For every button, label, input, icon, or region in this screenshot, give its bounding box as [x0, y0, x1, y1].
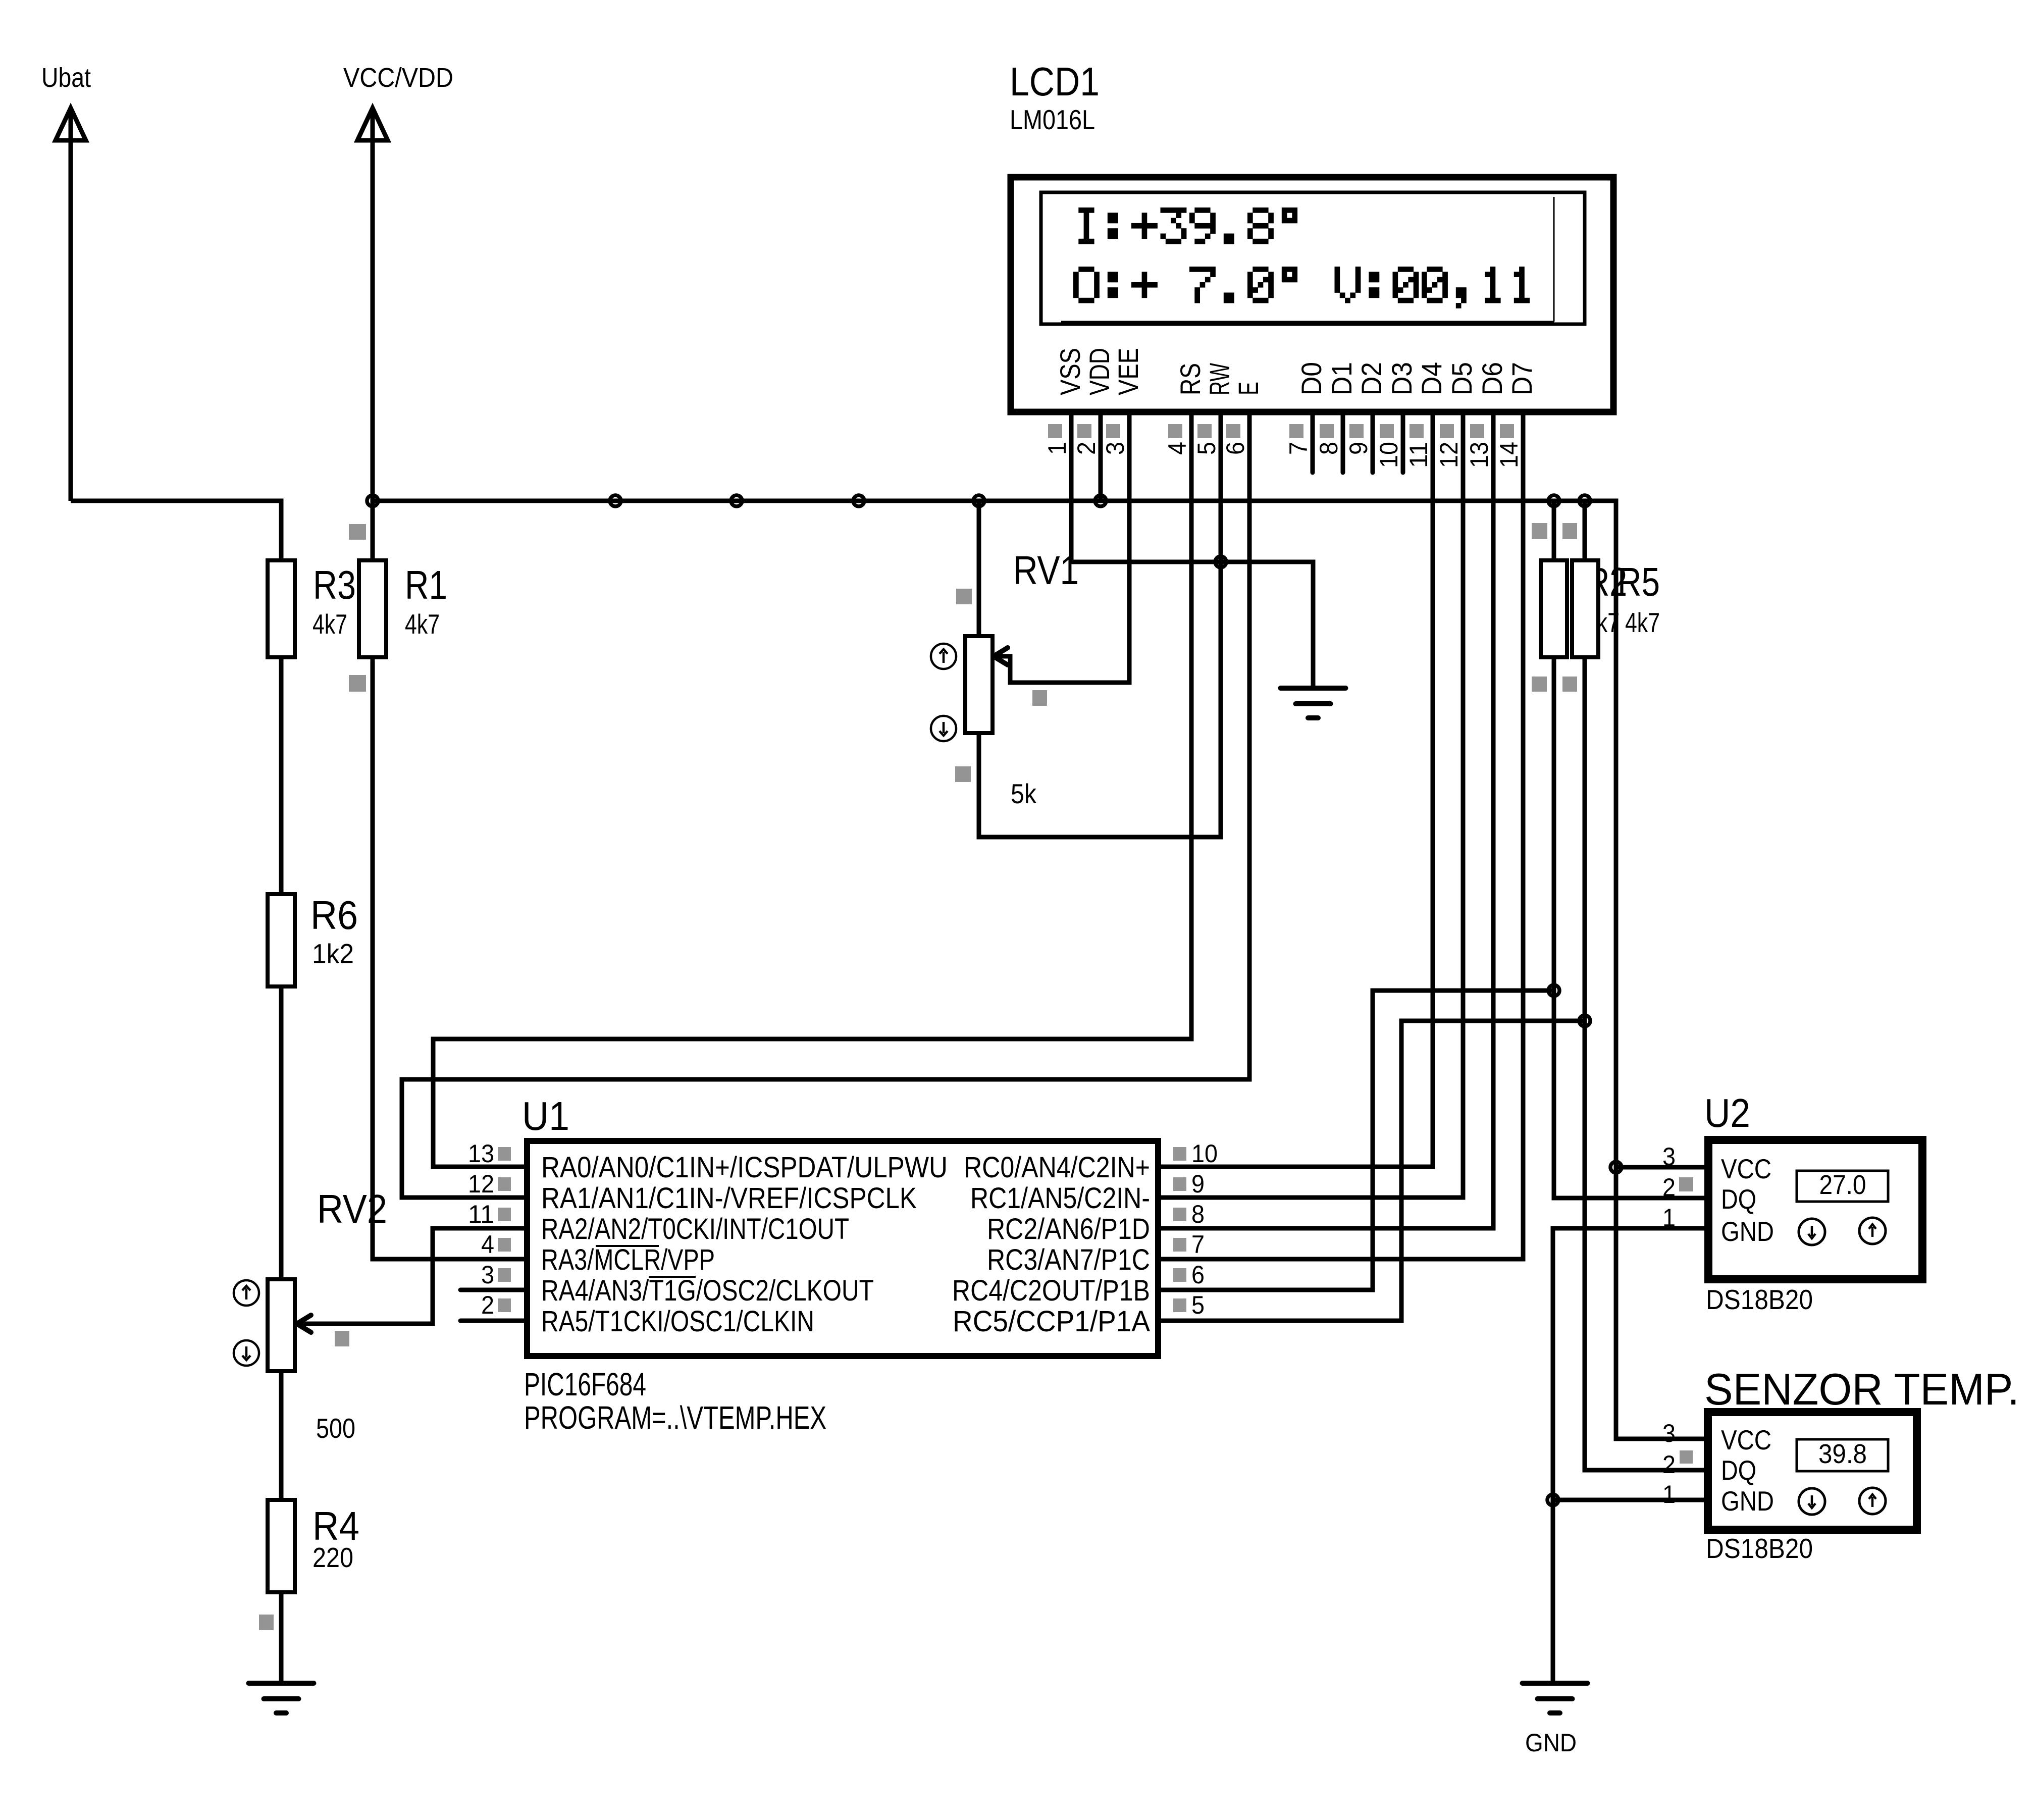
- wire R1 to RA3: [373, 501, 524, 1259]
- U1 pin number 5: [1173, 1291, 1205, 1319]
- svg-text:4k7: 4k7: [405, 608, 440, 640]
- node R2 top: [1548, 495, 1559, 506]
- wire RS to RA0: [433, 411, 1191, 1167]
- node bus a: [610, 495, 621, 506]
- LCD pin 10 label D3: [1386, 362, 1418, 395]
- LCD pin 11 grey handle: [1410, 424, 1424, 438]
- grey handle R2 bottom: [1532, 677, 1547, 692]
- LCD pin 5 grey handle: [1197, 424, 1212, 438]
- LCD pin 3 grey handle: [1106, 424, 1120, 438]
- U1 pin number 10: [1173, 1139, 1218, 1168]
- U1 T1G overline: [649, 1276, 696, 1278]
- grey handle RV1 bottom: [955, 766, 971, 782]
- U1 left pin label row 3: [541, 1213, 849, 1245]
- svg-text:7: 7: [1284, 442, 1313, 455]
- LCD pin 13 grey handle: [1470, 424, 1484, 438]
- svg-text:U1: U1: [522, 1094, 569, 1138]
- LCD display text line 2: [1073, 267, 1530, 308]
- LCD pin number 14: [1495, 442, 1523, 468]
- LCD pin 10 grey handle: [1380, 424, 1394, 438]
- U1 left pin label row 1: [541, 1151, 948, 1184]
- svg-text:LM016L: LM016L: [1010, 104, 1095, 135]
- U1 pin number 12: [468, 1170, 511, 1198]
- grey handle R5 top: [1562, 523, 1577, 539]
- LCD pin 4 label RS: [1174, 363, 1206, 395]
- wire RC5 to sensor DQ net: [1161, 1021, 1585, 1321]
- U1 pin number 2: [481, 1291, 511, 1319]
- resistor R4: [268, 1500, 359, 1592]
- wire R5 top: [1583, 501, 1587, 560]
- LCD pin number 4: [1163, 442, 1191, 455]
- potentiometer RV1: [931, 548, 1079, 809]
- svg-text:6: 6: [1221, 442, 1249, 455]
- svg-text:12: 12: [468, 1170, 494, 1198]
- LCD pin number 1: [1043, 442, 1071, 455]
- svg-text:DS18B20: DS18B20: [1706, 1533, 1813, 1564]
- wire R3-R6: [279, 657, 284, 894]
- LCD pin 1 grey handle: [1048, 424, 1062, 438]
- wire RC4 to U2 DQ net: [1161, 991, 1554, 1290]
- node VDD corner: [367, 495, 378, 506]
- svg-text:4: 4: [1163, 442, 1191, 455]
- svg-text:SENZOR TEMP.: SENZOR TEMP.: [1704, 1364, 2019, 1414]
- svg-text:14: 14: [1495, 442, 1523, 468]
- svg-text:4: 4: [481, 1230, 494, 1259]
- svg-text:R1: R1: [405, 562, 447, 607]
- LCD pin number 9: [1344, 442, 1373, 455]
- wire R4-ground: [279, 1592, 284, 1683]
- svg-text:9: 9: [1344, 442, 1373, 455]
- svg-text:3: 3: [1101, 442, 1129, 455]
- svg-text:RS: RS: [1174, 363, 1206, 395]
- node VDD pin2: [1095, 495, 1106, 506]
- RV2 wiper arrowhead: [297, 1315, 311, 1332]
- node bus b: [731, 495, 742, 506]
- LCD pin 7 label D0: [1295, 362, 1327, 395]
- svg-text:1: 1: [1662, 1480, 1676, 1509]
- svg-text:8: 8: [1191, 1200, 1205, 1228]
- U2 pin number 2: [1662, 1173, 1693, 1202]
- wire D5 to RC1: [1161, 411, 1463, 1198]
- svg-text:U2: U2: [1704, 1090, 1750, 1135]
- svg-text:7: 7: [1191, 1230, 1205, 1259]
- power flag VCC/VDD: [343, 63, 453, 501]
- svg-text:RC2/AN6/P1D: RC2/AN6/P1D: [987, 1213, 1150, 1245]
- svg-text:VDD: VDD: [1083, 348, 1115, 395]
- svg-text:1: 1: [1043, 442, 1071, 455]
- svg-text:GND: GND: [1721, 1216, 1774, 1247]
- node U2 VCC: [1610, 1162, 1622, 1173]
- LCD pin 5 label RW: [1204, 363, 1235, 395]
- U1 right pin label row 1: [964, 1151, 1150, 1184]
- svg-text:2: 2: [1662, 1173, 1676, 1202]
- potentiometer RV2: [234, 1186, 387, 1444]
- U2 pin number 1: [1662, 1204, 1676, 1232]
- svg-text:220: 220: [312, 1542, 353, 1573]
- LCD pin 12 label D5: [1446, 362, 1478, 395]
- resistor R5: [1572, 559, 1660, 657]
- grey handle RV1 top: [956, 589, 972, 604]
- LCD display text line 1: [1078, 207, 1297, 244]
- grey handle RV1 wiper: [1032, 690, 1047, 706]
- svg-text:DS18B20: DS18B20: [1706, 1284, 1813, 1315]
- wire R5 to sensor DQ: [1585, 657, 1704, 1470]
- svg-text:10: 10: [1375, 442, 1403, 468]
- svg-text:RC4/C2OUT/P1B: RC4/C2OUT/P1B: [952, 1274, 1150, 1307]
- LCD pin 13 label D6: [1476, 362, 1508, 395]
- svg-text:3: 3: [1662, 1419, 1676, 1447]
- wire R2 top: [1552, 501, 1556, 560]
- U1 pin number 7: [1173, 1230, 1205, 1259]
- wire RV1 bottom to RW node: [979, 562, 1221, 837]
- svg-text:3: 3: [481, 1261, 494, 1289]
- svg-text:2: 2: [1662, 1450, 1676, 1479]
- U1 left pin label row 5: [541, 1274, 874, 1307]
- U1 right pin label row 2: [970, 1182, 1150, 1215]
- svg-text:RA2/AN2/T0CKI/INT/C1OUT: RA2/AN2/T0CKI/INT/C1OUT: [541, 1213, 849, 1245]
- resistor R3: [268, 560, 356, 657]
- svg-text:11: 11: [468, 1200, 494, 1228]
- temperature sensor U2 DS18B20: [1704, 1090, 1922, 1315]
- svg-text:VEE: VEE: [1112, 348, 1144, 395]
- svg-text:11: 11: [1404, 442, 1433, 468]
- wire D6 to RC2: [1161, 411, 1493, 1228]
- LCD pin 1 label VSS: [1054, 348, 1086, 395]
- svg-text:D6: D6: [1476, 362, 1508, 395]
- LCD pin number 11: [1404, 442, 1433, 468]
- svg-text:13: 13: [468, 1139, 494, 1168]
- node R5 top: [1579, 495, 1590, 506]
- svg-text:1k2: 1k2: [312, 938, 354, 969]
- wire D3 stub: [1401, 411, 1405, 473]
- wire E to RA1: [402, 411, 1249, 1198]
- svg-text:RC5/CCP1/P1A: RC5/CCP1/P1A: [953, 1305, 1150, 1338]
- svg-text:2: 2: [1072, 442, 1101, 455]
- wire D2 stub: [1371, 411, 1375, 473]
- node bus c: [853, 495, 864, 506]
- wire VDD to U2 VCC: [1616, 1165, 1705, 1170]
- LCD pin 6 label E: [1232, 382, 1264, 395]
- LCD pin number 8: [1315, 442, 1343, 455]
- grey handle R4: [259, 1615, 274, 1630]
- U1 pin number 3: [481, 1261, 511, 1289]
- svg-text:5k: 5k: [1011, 778, 1036, 809]
- wire RV2-R4: [279, 1371, 284, 1500]
- node sensor GND: [1547, 1494, 1558, 1505]
- wire RA5 stub: [460, 1319, 524, 1323]
- LCD LM016L module LCD1: [1010, 59, 1613, 412]
- svg-text:12: 12: [1435, 442, 1463, 468]
- wire RA4 stub: [460, 1288, 524, 1292]
- svg-text:RA3/MCLR/VPP: RA3/MCLR/VPP: [541, 1243, 715, 1276]
- op-amp U1 microcontroller PIC16F684: [522, 1094, 1158, 1436]
- wire D1 stub: [1341, 411, 1345, 473]
- wire RW pin5: [1219, 411, 1223, 562]
- svg-text:9: 9: [1191, 1170, 1205, 1198]
- LCD pin number 13: [1465, 442, 1493, 468]
- U1 pin number 11: [468, 1200, 511, 1228]
- grey handle R1 bottom: [349, 675, 366, 692]
- ground near RV1: [1281, 688, 1346, 718]
- LCD pin 9 label D2: [1355, 362, 1387, 395]
- U1 pin number 6: [1173, 1261, 1205, 1289]
- LCD pin 7 grey handle: [1289, 424, 1303, 438]
- svg-text:D2: D2: [1355, 362, 1387, 395]
- sensor pin number 3: [1662, 1419, 1676, 1447]
- resistor R6: [268, 893, 358, 986]
- wire VDD pin2: [1099, 411, 1103, 501]
- svg-text:39.8: 39.8: [1818, 1439, 1867, 1469]
- svg-text:8: 8: [1315, 442, 1343, 455]
- svg-text:D0: D0: [1295, 362, 1327, 395]
- wire D4 to RC0: [1161, 411, 1433, 1167]
- U1 right pin label row 3: [987, 1213, 1150, 1245]
- U1 left pin label row 4: [541, 1243, 715, 1276]
- svg-text:LCD1: LCD1: [1010, 59, 1100, 104]
- LCD pin 9 grey handle: [1349, 424, 1364, 438]
- wire RV2 wiper to RA2: [300, 1228, 524, 1324]
- grey handle RV2 wiper: [335, 1331, 349, 1346]
- wire RV1 top: [977, 501, 981, 636]
- svg-text:GND: GND: [1525, 1729, 1577, 1757]
- node RV1 top: [973, 495, 984, 506]
- grey handle R1 top: [349, 524, 366, 540]
- LCD pin number 10: [1375, 442, 1403, 468]
- svg-text:D1: D1: [1326, 362, 1358, 395]
- LCD pin number 7: [1284, 442, 1313, 455]
- svg-text:GND: GND: [1721, 1485, 1774, 1517]
- U1 right pin label row 4: [987, 1243, 1150, 1276]
- U1 right pin label row 5: [952, 1274, 1150, 1307]
- U1 left pin label row 2: [541, 1182, 917, 1215]
- node RC4/DQ: [1548, 985, 1559, 996]
- grey handle R5 bottom: [1562, 677, 1577, 692]
- U1 MCLR overline: [596, 1245, 659, 1247]
- svg-text:RA4/AN3/T1G/OSC2/CLKOUT: RA4/AN3/T1G/OSC2/CLKOUT: [541, 1274, 874, 1307]
- svg-text:PROGRAM=..\VTEMP.HEX: PROGRAM=..\VTEMP.HEX: [524, 1399, 826, 1436]
- LCD pin number 6: [1221, 442, 1249, 455]
- LCD pin number 12: [1435, 442, 1463, 468]
- U1 pin number 4: [481, 1230, 511, 1259]
- LCD pin number 5: [1192, 442, 1221, 455]
- svg-text:4k7: 4k7: [1625, 607, 1660, 638]
- svg-text:R6: R6: [310, 893, 358, 938]
- svg-text:RV1: RV1: [1013, 548, 1079, 593]
- LCD pin 3 label VEE: [1112, 348, 1144, 395]
- svg-text:R5: R5: [1617, 559, 1660, 604]
- svg-text:RW: RW: [1204, 363, 1235, 395]
- temperature sensor SENZOR TEMP. DS18B20: [1704, 1364, 2019, 1564]
- wire D7 to RC3: [1161, 411, 1523, 1259]
- node RW/ground: [1215, 556, 1226, 567]
- LCD pin number 3: [1101, 442, 1129, 455]
- LCD pin 6 grey handle: [1226, 424, 1240, 438]
- ground below R4: [249, 1683, 314, 1713]
- resistor R2: [1541, 559, 1627, 657]
- U1 pin number 13: [468, 1139, 511, 1168]
- LCD pin 11 label D4: [1416, 362, 1447, 395]
- LCD pin 2 grey handle: [1077, 424, 1091, 438]
- svg-text:RA1/AN1/C1IN-/VREF/ICSPCLK: RA1/AN1/C1IN-/VREF/ICSPCLK: [541, 1182, 917, 1215]
- svg-text:RC0/AN4/C2IN+: RC0/AN4/C2IN+: [964, 1151, 1150, 1184]
- svg-text:13: 13: [1465, 442, 1493, 468]
- RV1 wiper arrowhead: [994, 648, 1008, 665]
- wire VEE to RV1 wiper: [997, 411, 1129, 683]
- sensor pin number 2: [1662, 1450, 1693, 1479]
- ground GND bottom right: [1523, 1683, 1588, 1757]
- LCD pin 14 grey handle: [1500, 424, 1514, 438]
- svg-text:5: 5: [1191, 1291, 1205, 1319]
- power flag Ubat: [41, 63, 91, 501]
- LCD pin 12 grey handle: [1440, 424, 1454, 438]
- LCD pin 8 label D1: [1326, 362, 1358, 395]
- svg-text:6: 6: [1191, 1261, 1205, 1289]
- LCD pin 2 label VDD: [1083, 348, 1115, 395]
- U1 pin number 9: [1173, 1170, 1205, 1198]
- grey handle R2 top: [1532, 523, 1547, 539]
- LCD pin 4 grey handle: [1168, 424, 1182, 438]
- wire VDD bus: [373, 501, 1704, 1439]
- svg-text:D3: D3: [1386, 362, 1418, 395]
- svg-text:RA5/T1CKI/OSC1/CLKIN: RA5/T1CKI/OSC1/CLKIN: [541, 1305, 814, 1338]
- U1 left pin label row 6: [541, 1305, 814, 1338]
- wire Ubat to R3: [71, 501, 281, 560]
- svg-text:D5: D5: [1446, 362, 1478, 395]
- svg-text:2: 2: [481, 1291, 494, 1319]
- resistor R1: [359, 560, 447, 657]
- LCD pin 8 grey handle: [1320, 424, 1334, 438]
- svg-text:RC1/AN5/C2IN-: RC1/AN5/C2IN-: [970, 1182, 1150, 1215]
- svg-text:RA0/AN0/C1IN+/ICSPDAT/ULPWU: RA0/AN0/C1IN+/ICSPDAT/ULPWU: [541, 1151, 948, 1184]
- svg-text:RC3/AN7/P1C: RC3/AN7/P1C: [987, 1243, 1150, 1276]
- U1 pin number 8: [1173, 1200, 1205, 1228]
- svg-text:5: 5: [1192, 442, 1221, 455]
- svg-text:DQ: DQ: [1721, 1183, 1756, 1215]
- node RC5/DQ2: [1579, 1015, 1590, 1026]
- wire sensor GND: [1553, 1498, 1704, 1502]
- sensor pin number 1: [1662, 1480, 1676, 1509]
- svg-text:10: 10: [1191, 1139, 1218, 1168]
- svg-text:D7: D7: [1506, 362, 1538, 395]
- svg-text:27.0: 27.0: [1819, 1170, 1866, 1200]
- U2 pin number 3: [1662, 1142, 1676, 1171]
- svg-text:E: E: [1232, 382, 1264, 395]
- wire U2 GND to ground: [1553, 1228, 1705, 1683]
- svg-text:VSS: VSS: [1054, 348, 1086, 395]
- svg-text:VCC: VCC: [1721, 1424, 1771, 1455]
- svg-text:RV2: RV2: [317, 1186, 387, 1231]
- wire D0 stub: [1311, 411, 1315, 473]
- svg-text:R3: R3: [313, 562, 356, 607]
- LCD pin 14 label D7: [1506, 362, 1538, 395]
- U1 right pin label row 6: [953, 1305, 1150, 1338]
- svg-text:D4: D4: [1416, 362, 1447, 395]
- svg-text:500: 500: [316, 1413, 355, 1444]
- wire VSS to ground: [1071, 411, 1313, 688]
- LCD pin number 2: [1072, 442, 1101, 455]
- wire R6-RV2: [279, 986, 284, 1279]
- svg-text:3: 3: [1662, 1142, 1676, 1171]
- svg-text:1: 1: [1662, 1204, 1676, 1232]
- svg-text:VCC/VDD: VCC/VDD: [343, 63, 453, 93]
- svg-text:4k7: 4k7: [312, 608, 347, 640]
- svg-text:Ubat: Ubat: [41, 63, 91, 93]
- svg-text:VCC: VCC: [1721, 1153, 1771, 1184]
- svg-text:DQ: DQ: [1721, 1454, 1756, 1486]
- wire R2 to U2 DQ: [1554, 657, 1705, 1198]
- svg-text:PIC16F684: PIC16F684: [524, 1366, 646, 1402]
